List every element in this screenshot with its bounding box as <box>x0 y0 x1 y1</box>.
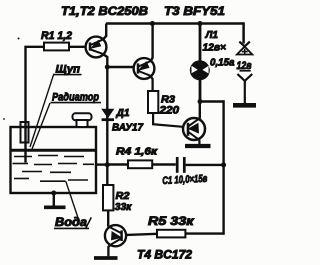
capacitor C1 <box>176 157 179 173</box>
leader Радиатор to tank <box>32 103 50 149</box>
wire node down to R2 <box>106 165 108 186</box>
wire R2 to T4 collector <box>107 210 109 226</box>
water surface line <box>11 149 97 152</box>
svg-text:T3 BFY51: T3 BFY51 <box>164 4 225 18</box>
ground stand under tank <box>53 193 55 206</box>
wire lamp top lead <box>199 24 202 61</box>
node lamp bottom junction <box>198 99 203 104</box>
node diode/R4/R2 junction <box>105 162 110 167</box>
leader Щуп to probe <box>30 75 54 147</box>
svg-text:Радиатор: Радиатор <box>52 91 99 103</box>
svg-text:33к: 33к <box>115 201 132 213</box>
svg-text:0,15а: 0,15а <box>210 57 235 69</box>
wire T2 collector up to rail <box>151 24 153 62</box>
probe tube <box>21 122 29 143</box>
resistor R1 <box>44 43 69 51</box>
speck <box>3 118 5 120</box>
resistor R4 <box>128 160 152 168</box>
ground bar T4 emitter <box>94 256 118 260</box>
svg-text:ВАУ17: ВАУ17 <box>112 122 144 134</box>
wire right vertical rail <box>222 100 224 234</box>
wire top supply rail <box>106 22 244 25</box>
wire node to R4 <box>107 163 128 165</box>
wire T3 collector <box>199 102 201 118</box>
wire C1 to right rail <box>186 164 224 166</box>
svg-text:Щуп: Щуп <box>56 64 81 76</box>
svg-text:Д1: Д1 <box>116 107 130 119</box>
wire T1 collector down chain <box>103 54 108 165</box>
node C1 to right rail <box>221 162 226 167</box>
wire R4 to C1 <box>152 163 176 165</box>
ground bar T3 emitter <box>185 144 211 148</box>
wire R1 to T1 base <box>69 46 86 48</box>
node T1 collector junction <box>105 65 110 70</box>
svg-text:R1 1,2: R1 1,2 <box>41 30 72 42</box>
wire socket stem to ground <box>244 80 246 104</box>
svg-text:C1 10,0×15в: C1 10,0×15в <box>162 173 208 187</box>
wire left rail and probe electrode <box>26 47 45 163</box>
lamp L1 <box>190 60 210 80</box>
wire T1 emitter up to rail <box>103 24 106 40</box>
transistor T2 <box>134 58 155 79</box>
wire T2 emitter to R3 <box>150 76 152 92</box>
transistor T4 <box>105 225 126 246</box>
water hatch dashes <box>13 156 95 182</box>
svg-text:T1,T2 BC250B: T1,T2 BC250B <box>61 4 148 18</box>
svg-text:220: 220 <box>158 105 179 117</box>
wire tank to R4 node <box>96 163 107 165</box>
wire T4 emitter to ground <box>108 245 111 257</box>
radiator filler cap <box>73 113 92 120</box>
leader Вода to water <box>66 181 78 218</box>
node junction T2 collector to rail <box>150 21 155 26</box>
wire T3 emitter <box>198 140 200 145</box>
svg-text:R2: R2 <box>116 190 130 202</box>
wire T4 base to R5 <box>126 234 157 235</box>
wire rail corner down to plus terminal <box>242 22 245 43</box>
wire R5 to right rail <box>185 232 223 234</box>
svg-text:Вода: Вода <box>55 217 88 229</box>
connector pin chevron (plus terminal) <box>239 42 250 47</box>
polarity triangle with plus cross <box>237 47 252 55</box>
ground bar (supply minus) <box>233 103 256 108</box>
wire branch to right rail <box>200 100 224 102</box>
node tank to stand <box>51 191 56 196</box>
svg-text:12в×: 12в× <box>203 42 227 54</box>
svg-text:R5 33к: R5 33к <box>148 216 195 228</box>
wire R3 to T3 base <box>153 113 183 127</box>
connector socket V (minus side) <box>237 74 252 81</box>
wire T4 collector exit <box>108 226 110 228</box>
transistor T3 <box>183 118 205 140</box>
tank (radiator body) <box>11 127 97 193</box>
diode D1 <box>101 109 114 119</box>
speck <box>18 38 20 40</box>
wire lamp bottom lead <box>199 80 202 102</box>
transistor T1 <box>86 37 107 58</box>
svg-text:T4 BC172: T4 BC172 <box>137 248 192 262</box>
node junction lamp to rail <box>198 21 203 26</box>
svg-text:Л1: Л1 <box>205 29 219 41</box>
svg-text:R4 1,6к: R4 1,6к <box>116 145 158 157</box>
resistor R3 <box>148 91 158 113</box>
resistor R2 <box>103 185 113 210</box>
wire T1 collector to T2 base <box>107 66 133 68</box>
resistor R5 <box>157 230 185 238</box>
